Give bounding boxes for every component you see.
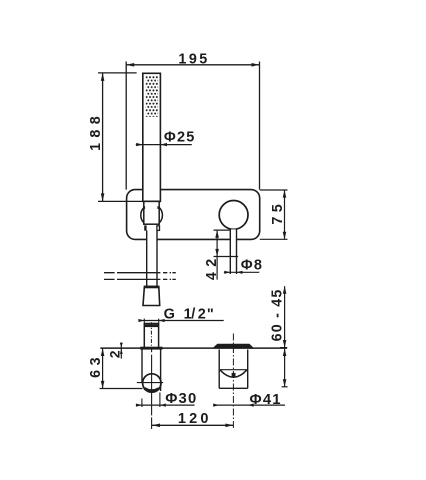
dim 195 arrow left	[126, 63, 134, 67]
escutcheon cylinder right edge	[247, 350, 249, 389]
escutcheon cylinder left edge	[218, 350, 220, 389]
dim 60-45 arrow below wall	[283, 348, 287, 356]
dim 75 tick bottom	[260, 238, 288, 240]
knob stem body mask	[231, 229, 237, 274]
dim 63 arrow bottom	[101, 381, 105, 389]
dim G 1/2 arrow left	[138, 319, 144, 322]
dim 188 extension tick top	[98, 72, 137, 74]
dim 75 tick top	[260, 189, 288, 191]
hose cone thick top edge	[144, 286, 159, 289]
dim phi41 line	[216, 404, 285, 406]
nipple centerline	[150, 322, 152, 348]
dim G 1/2 leader line	[139, 320, 223, 322]
dim 75 arrow top	[283, 190, 287, 198]
dim 188 arrow bottom	[101, 193, 105, 201]
svg-text:63: 63	[88, 353, 104, 378]
dim phi41 arrow left	[213, 404, 219, 407]
escutcheon mound side view	[214, 344, 253, 347]
knob stem square	[232, 373, 236, 377]
bracket lug left	[144, 225, 146, 230]
dim 2 arrow up	[120, 350, 123, 354]
dim 60-45 line	[284, 286, 286, 387]
knob stem right line	[236, 229, 238, 274]
dim 75 arrow bottom	[283, 232, 287, 240]
dim phi41 arrow right	[248, 404, 254, 407]
dim 2 arrow down	[120, 343, 123, 347]
dim 195 arrow right	[252, 63, 260, 67]
dim 63 arrow top	[101, 348, 105, 356]
dim phi30 arrow left	[136, 404, 142, 407]
bracket circle left arc	[141, 208, 144, 223]
svg-text:Φ25: Φ25	[164, 129, 196, 145]
dim 60-45 arrow top	[283, 286, 287, 294]
svg-text:G: G	[164, 306, 175, 322]
dim 188 extension tick bottom / handle joint	[98, 200, 160, 202]
hose right line	[156, 231, 158, 286]
thread nipple	[144, 324, 158, 348]
hose cone fitting	[143, 286, 160, 305]
wall thick band under nipple	[140, 347, 162, 350]
dim 60-45 arrow above wall	[283, 340, 287, 348]
dim 42 line	[216, 230, 218, 280]
hose body mask	[147, 231, 157, 286]
dim 42 arrow top	[215, 230, 219, 238]
svg-text:120: 120	[178, 411, 212, 427]
dim phi25 arrow right	[160, 143, 167, 146]
dim 42 tick top	[214, 229, 230, 231]
svg-text:Φ41: Φ41	[250, 392, 282, 408]
escutcheon centerline	[232, 334, 234, 430]
break line upper	[104, 272, 176, 274]
bracket hook left	[143, 206, 145, 209]
dim 42 arrow bottom	[215, 249, 219, 257]
svg-text:60 - 45: 60 - 45	[270, 288, 286, 341]
dim phi25 line	[136, 144, 192, 146]
svg-text:188: 188	[88, 111, 104, 151]
dim phi30 extension right	[159, 393, 161, 408]
svg-text:195: 195	[178, 51, 209, 67]
outlet ball bottom thick arc	[144, 388, 159, 390]
dim phi30 line	[137, 404, 195, 406]
dim G 1/2 arrow right	[159, 319, 165, 322]
dim G 1/2 extension right	[158, 319, 160, 324]
escutcheon dome arc	[220, 370, 247, 377]
bracket circle right arc	[159, 208, 162, 223]
svg-text:Φ30: Φ30	[165, 391, 197, 407]
dim phi30 arrow right	[160, 404, 166, 407]
outlet centerline vertical	[151, 350, 153, 430]
dim phi8 line	[224, 271, 259, 273]
svg-text:75: 75	[270, 200, 286, 225]
break line lower	[104, 278, 176, 280]
spray face dots	[146, 76, 158, 117]
dim G 1/2 extension left	[143, 319, 145, 324]
dim 60-45 arrow bottom	[283, 379, 287, 387]
escutcheon bottom edge	[219, 387, 248, 389]
dim 60-45 tick wall	[280, 347, 287, 349]
dim 75 line	[284, 190, 286, 239]
svg-text:2: 2	[107, 350, 123, 358]
outlet pipe right edge	[160, 350, 162, 392]
dim 42 tick bottom	[214, 256, 239, 258]
bracket hook right	[157, 206, 159, 209]
outlet pipe left edge	[141, 350, 143, 383]
dim 188 line	[102, 73, 104, 202]
dim 60-45 tick bottom	[282, 386, 288, 388]
svg-text:42: 42	[204, 253, 220, 280]
control knob circle	[219, 201, 248, 230]
dim 195 line	[126, 64, 259, 66]
dim phi30 extension left	[141, 399, 143, 408]
hand shower handle body	[143, 73, 161, 201]
escutcheon inner line	[220, 369, 247, 371]
svg-text:Φ8: Φ8	[241, 258, 263, 274]
dim 120 arrow right	[225, 424, 233, 428]
escutcheon inner line hook right	[245, 369, 247, 371]
dim 195 extension line left	[125, 62, 127, 190]
dim 63 line	[102, 348, 104, 388]
outlet ball phi30	[143, 374, 161, 392]
hose left line	[146, 231, 148, 286]
nipple dark band	[144, 324, 159, 327]
escutcheon inner line hook left	[220, 369, 222, 371]
knob stem left line	[229, 229, 231, 274]
mounting plate	[127, 190, 260, 240]
dim 63 extension tick bottom	[100, 388, 143, 390]
svg-text:": "	[207, 306, 214, 322]
dim 120 line	[152, 424, 233, 426]
dim 195 extension line right	[259, 62, 261, 190]
dim phi8 arrow left	[224, 271, 230, 274]
dim phi25 arrow left	[136, 143, 143, 146]
dim 188 arrow top	[101, 73, 105, 81]
dim 120 arrow left	[152, 424, 160, 428]
dim 2 line	[120, 342, 122, 358]
svg-text:/: /	[191, 306, 195, 322]
bracket holder body	[144, 201, 159, 224]
wall line	[100, 347, 287, 349]
dim phi8 arrow right	[237, 271, 243, 274]
svg-text:2: 2	[198, 306, 206, 322]
outlet center cross horizontal	[137, 382, 163, 384]
bracket lug right	[157, 226, 160, 231]
